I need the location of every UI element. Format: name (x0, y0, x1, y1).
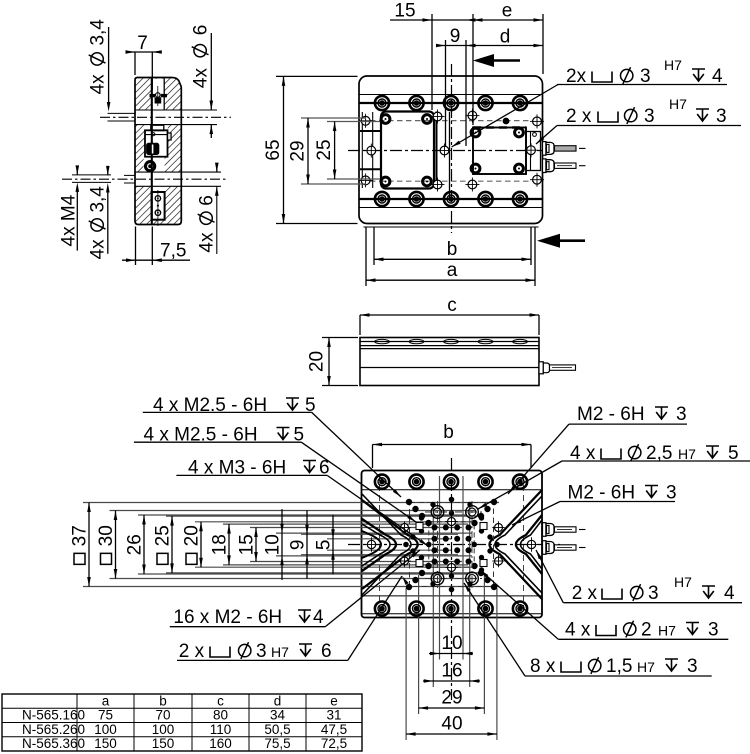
dimension 40 bottom (406, 733, 497, 735)
svg-text:80: 80 (213, 708, 228, 723)
side view internal white channels (153, 79, 165, 111)
dimension 16 bottom (423, 680, 480, 682)
svg-text:15: 15 (394, 1, 415, 22)
svg-text:N-565.260: N-565.260 (22, 722, 85, 737)
svg-text:2 x: 2 x (179, 641, 205, 662)
upper hole center line (100, 116, 231, 118)
svg-text:25: 25 (314, 139, 335, 160)
svg-text:e: e (502, 1, 513, 22)
svg-text:b: b (443, 422, 454, 443)
svg-text:4x M4: 4x M4 (59, 194, 80, 246)
additional pattern holes (419, 516, 424, 521)
bottom view body (362, 471, 543, 618)
svg-text:100: 100 (152, 722, 175, 737)
label 4x diameter 3,4 upper-left (88, 19, 109, 95)
small white squares (416, 523, 423, 530)
svg-text:3: 3 (648, 583, 659, 604)
center hole grid 16x M2 (432, 525, 437, 530)
svg-text:37: 37 (70, 525, 91, 546)
front view top plate lines (360, 341, 539, 343)
diagonal hole chains (406, 499, 412, 505)
top view dowel cross circles (361, 116, 370, 125)
svg-text:30: 30 (96, 525, 117, 546)
label 4x diameter 6 upper-right (191, 25, 212, 88)
bottom view edge dowel circles (367, 540, 375, 548)
flexure fold dash lines (379, 475, 381, 612)
motion direction arrow top (473, 54, 494, 67)
svg-text:3: 3 (676, 404, 687, 425)
svg-text:3: 3 (716, 106, 727, 127)
center line holes (449, 497, 454, 502)
svg-text:16 x M2 - 6H: 16 x M2 - 6H (173, 607, 282, 628)
top view left inner rounded rectangle (381, 112, 434, 189)
top view slot lines (359, 94, 543, 96)
svg-text:16: 16 (441, 661, 462, 682)
svg-text:4: 4 (313, 607, 324, 628)
side view upper hole channel (135, 109, 217, 111)
side view top screw detail (150, 94, 156, 97)
ring center dash lines (425, 511, 484, 513)
svg-text:3,4: 3,4 (88, 186, 109, 213)
data table (2, 694, 362, 751)
svg-text:2: 2 (641, 620, 652, 641)
dimension 29 left (301, 117, 366, 119)
dowel cross circles in pattern (401, 524, 409, 532)
dimension 20 front (322, 337, 358, 339)
motion direction arrow right (537, 234, 560, 248)
dimension c front (359, 315, 361, 335)
svg-text:H7: H7 (678, 446, 696, 462)
svg-text:c: c (447, 295, 457, 316)
left stack extension lines into body (83, 502, 499, 504)
top view mid vertical lines (436, 112, 438, 189)
top view center lines (348, 150, 558, 152)
svg-text:c: c (217, 693, 224, 708)
svg-text:2 x: 2 x (572, 583, 598, 604)
side view lower hole channel (135, 171, 221, 173)
svg-text:65: 65 (263, 139, 284, 160)
svg-text:34: 34 (270, 708, 286, 723)
left flexure chevrons (362, 500, 418, 589)
dimension 10 bottom (429, 653, 473, 655)
label 4x diameter 6 lower-right (197, 195, 218, 252)
dimension 9 and d (437, 45, 543, 47)
bottom view connectors (543, 523, 547, 537)
dashed square 37 around pattern (410, 503, 494, 587)
svg-text:29: 29 (441, 688, 462, 709)
svg-text:H7: H7 (658, 623, 676, 639)
svg-text:b: b (159, 693, 167, 708)
svg-text:4x: 4x (88, 74, 109, 95)
dimension 25 left (327, 121, 380, 123)
svg-text:29: 29 (288, 140, 309, 161)
svg-text:72,5: 72,5 (321, 736, 347, 751)
svg-text:4 x: 4 x (565, 620, 591, 641)
dimension 29 bottom (419, 707, 485, 709)
top view black dot (503, 118, 510, 125)
svg-text:18: 18 (210, 534, 231, 555)
svg-text:H7: H7 (271, 644, 289, 660)
svg-text:3: 3 (666, 483, 677, 504)
svg-text:26: 26 (125, 534, 146, 555)
svg-text:3: 3 (644, 106, 655, 127)
svg-text:e: e (330, 693, 338, 708)
4x counterbore rings dia 2,5 (431, 506, 444, 519)
svg-text:N-565.160: N-565.160 (22, 708, 85, 723)
svg-text:6: 6 (191, 25, 212, 36)
svg-text:150: 150 (152, 736, 175, 751)
svg-text:75: 75 (98, 708, 113, 723)
front view connector (539, 362, 543, 374)
svg-text:H7: H7 (674, 574, 692, 590)
side view bottom screw box (152, 192, 165, 220)
svg-text:3: 3 (708, 620, 719, 641)
svg-text:4x: 4x (88, 239, 109, 260)
svg-text:150: 150 (94, 736, 117, 751)
svg-text:6: 6 (321, 641, 332, 662)
svg-text:50,5: 50,5 (264, 722, 290, 737)
dimension 15 top (431, 14, 433, 110)
svg-text:4x: 4x (197, 232, 218, 253)
dimension 65 left (276, 75, 358, 77)
top view connector bracket (526, 132, 541, 171)
svg-text:100: 100 (94, 722, 117, 737)
svg-text:9: 9 (288, 540, 309, 551)
svg-text:a: a (102, 693, 110, 708)
label 4x diameter 3,4 lower-left (88, 186, 109, 260)
svg-text:110: 110 (210, 722, 232, 737)
top view dashed platform lines (361, 120, 541, 122)
dimension 7,5 bottom (135, 227, 137, 266)
bottom view bottom strip lines (362, 595, 543, 597)
top view body (359, 76, 543, 224)
svg-text:5: 5 (314, 540, 335, 551)
svg-text:4: 4 (724, 583, 735, 604)
svg-text:25: 25 (153, 525, 174, 546)
svg-text:7: 7 (137, 33, 148, 54)
leader to dowel hole (452, 85, 559, 148)
bottom view center lines (348, 544, 560, 546)
front view mid line (360, 367, 539, 369)
svg-text:10: 10 (263, 534, 284, 555)
svg-text:31: 31 (326, 708, 341, 723)
svg-text:b: b (447, 239, 458, 260)
svg-text:d: d (274, 693, 282, 708)
svg-text:4x: 4x (191, 68, 212, 89)
top view connectors with cables (543, 142, 547, 156)
svg-text:10: 10 (441, 633, 462, 654)
top view right rectangle (473, 128, 526, 175)
label 4x M4 lower-left (59, 194, 80, 246)
svg-text:75,5: 75,5 (264, 736, 290, 751)
svg-text:H7: H7 (637, 659, 655, 675)
svg-text:20: 20 (182, 525, 203, 546)
left dimension stack (88, 503, 90, 587)
leader to dowel hole 2 (536, 126, 557, 145)
svg-text:H7: H7 (669, 96, 687, 112)
svg-text:d: d (500, 27, 511, 48)
svg-text:3: 3 (687, 656, 698, 677)
svg-text:7,5: 7,5 (160, 241, 186, 262)
top view left slot (361, 112, 363, 188)
side view lower bearing ring (146, 162, 155, 171)
svg-text:H7: H7 (664, 57, 682, 73)
svg-text:a: a (447, 260, 458, 281)
side view inner plate line (151, 78, 153, 225)
front view body (360, 338, 539, 386)
svg-text:40: 40 (441, 714, 462, 735)
svg-text:47,5: 47,5 (321, 722, 347, 737)
svg-text:3,4: 3,4 (88, 19, 109, 46)
svg-text:8 x: 8 x (530, 656, 556, 677)
dimension 7 top (134, 52, 136, 75)
front view slots (375, 339, 390, 343)
vertical extension lines to bottom dims (439, 476, 441, 660)
side view motor cavity (145, 130, 168, 156)
svg-text:N-565.360: N-565.360 (22, 736, 85, 751)
svg-text:1,5: 1,5 (606, 656, 632, 677)
svg-text:15: 15 (237, 534, 258, 555)
bottom view screw rows (375, 475, 389, 489)
svg-text:160: 160 (209, 736, 232, 751)
lower hole center line (62, 178, 228, 180)
svg-text:9: 9 (450, 26, 461, 47)
base edge below top view (364, 226, 539, 228)
svg-text:6: 6 (197, 195, 218, 206)
top view screw rows (375, 96, 389, 110)
right flexure chevrons (490, 490, 543, 599)
dimension b above bottom view (372, 445, 374, 469)
dimension a below top view (365, 227, 367, 286)
svg-text:70: 70 (155, 708, 170, 723)
svg-text:3: 3 (256, 641, 267, 662)
svg-text:M2 - 6H: M2 - 6H (577, 404, 645, 425)
svg-text:20: 20 (307, 351, 328, 372)
svg-text:M2 - 6H: M2 - 6H (568, 483, 636, 504)
dashed square 20 around pattern (429, 522, 474, 567)
svg-text:2 x: 2 x (566, 106, 592, 127)
dimension b below top view (373, 227, 375, 265)
